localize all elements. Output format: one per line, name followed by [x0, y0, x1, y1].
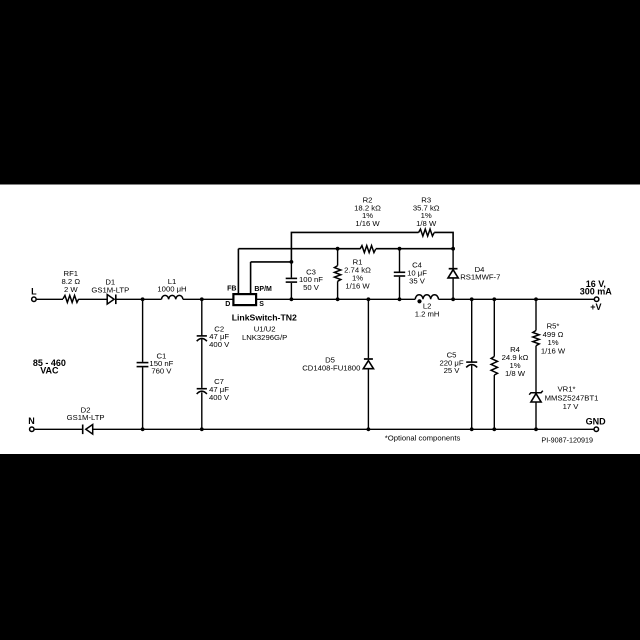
node rail-R5 — [534, 297, 538, 301]
svg-text:L: L — [31, 287, 37, 297]
svg-text:S: S — [259, 301, 264, 308]
svg-text:PI-9087-120919: PI-9087-120919 — [541, 435, 593, 444]
node bottom-C1 — [141, 427, 145, 431]
svg-text:*Optional components: *Optional components — [385, 433, 461, 442]
wire/branch x=201.8 through C2,C7 — [201, 299, 203, 336]
node bottom-R4 — [492, 427, 496, 431]
terminal N — [30, 427, 35, 432]
svg-text:FB: FB — [227, 285, 236, 292]
diode D4 branch — [452, 249, 454, 268]
line C (BP/M to C3) — [251, 261, 292, 263]
line A (C3 top to D4 top) with R3 — [291, 232, 418, 262]
white schematic plate — [0, 185, 640, 455]
capacitor C3 branch — [290, 262, 292, 278]
svg-text:RF18.2 Ω2 W: RF18.2 Ω2 W — [62, 269, 81, 294]
diode D2 — [82, 425, 84, 435]
svg-text:VR1*: VR1* — [558, 385, 576, 394]
ic U1 LinkSwitch-TN2 box — [233, 294, 256, 305]
wire/branch x=143 through C1 — [142, 299, 144, 362]
capacitor C2 (polarized) — [197, 335, 207, 337]
wire: U1 S pin to L2 — [256, 298, 415, 300]
node rail-C2 — [200, 297, 204, 301]
svg-text:17 V: 17 V — [563, 402, 580, 411]
svg-text:N: N — [28, 416, 35, 426]
resistor RF1 — [63, 295, 79, 302]
resistor R4 branch — [493, 299, 495, 356]
terminal +V — [594, 297, 599, 302]
inductor L2 — [415, 295, 438, 300]
inductor L1 — [162, 295, 183, 299]
node lineB-D4 — [451, 247, 455, 251]
diode D1 — [107, 295, 114, 305]
svg-text:BP/M: BP/M — [254, 286, 272, 293]
FB pin riser — [237, 249, 239, 294]
node rail-R1 — [336, 297, 340, 301]
node rail-D4 — [451, 297, 455, 301]
svg-text:RS1MWF-7: RS1MWF-7 — [460, 273, 500, 282]
svg-text:+V: +V — [590, 302, 601, 312]
svg-text:CD1408-FU1800: CD1408-FU1800 — [302, 363, 360, 372]
terminal GND — [594, 427, 599, 432]
svg-text:GND: GND — [586, 416, 607, 426]
node rail-D5 — [367, 297, 371, 301]
wire: D2 to GND terminal (bottom rail) — [93, 428, 594, 430]
node lineB-R1 — [336, 247, 340, 251]
capacitor C7 (polarized) — [197, 388, 207, 390]
node rail-C4 — [398, 297, 402, 301]
diode D5 branch — [367, 299, 369, 358]
capacitor C4 branch — [399, 249, 401, 272]
node lineC-C3 — [290, 260, 294, 264]
node bottom-D5 — [367, 427, 371, 431]
node bottom-C2 — [200, 427, 204, 431]
node rail-C3 — [290, 297, 294, 301]
capacitor C5 branch — [471, 299, 473, 362]
feedback line B (FB to D4 top) with R2 — [238, 248, 360, 250]
wire: L terminal to RF1 — [37, 298, 63, 300]
node bottom-C5 — [470, 427, 474, 431]
wire: N terminal to D2 — [35, 428, 83, 430]
capacitor C1 — [137, 362, 149, 364]
wire: D1 to L1 — [116, 298, 162, 300]
BP/M pin riser — [250, 262, 252, 294]
wire: L1 to U1 D pin — [183, 298, 234, 300]
zener VR1 — [529, 391, 543, 395]
node rail-C1 — [141, 297, 145, 301]
node lineB-C4 — [398, 247, 402, 251]
svg-text:LinkSwitch-TN2: LinkSwitch-TN2 — [232, 312, 297, 322]
resistor R5 + zener VR1 branch — [535, 299, 537, 330]
node bottom-VR1 — [534, 427, 538, 431]
resistor R1 branch — [337, 249, 339, 266]
inductor L2 phasing dot — [417, 299, 421, 303]
terminal L — [32, 297, 37, 302]
node rail-R4 — [492, 297, 496, 301]
node rail-C5 — [470, 297, 474, 301]
svg-text:D: D — [225, 301, 230, 308]
wire: RF1 to D1 — [79, 298, 108, 300]
wire: L2 to +V terminal — [438, 298, 594, 300]
